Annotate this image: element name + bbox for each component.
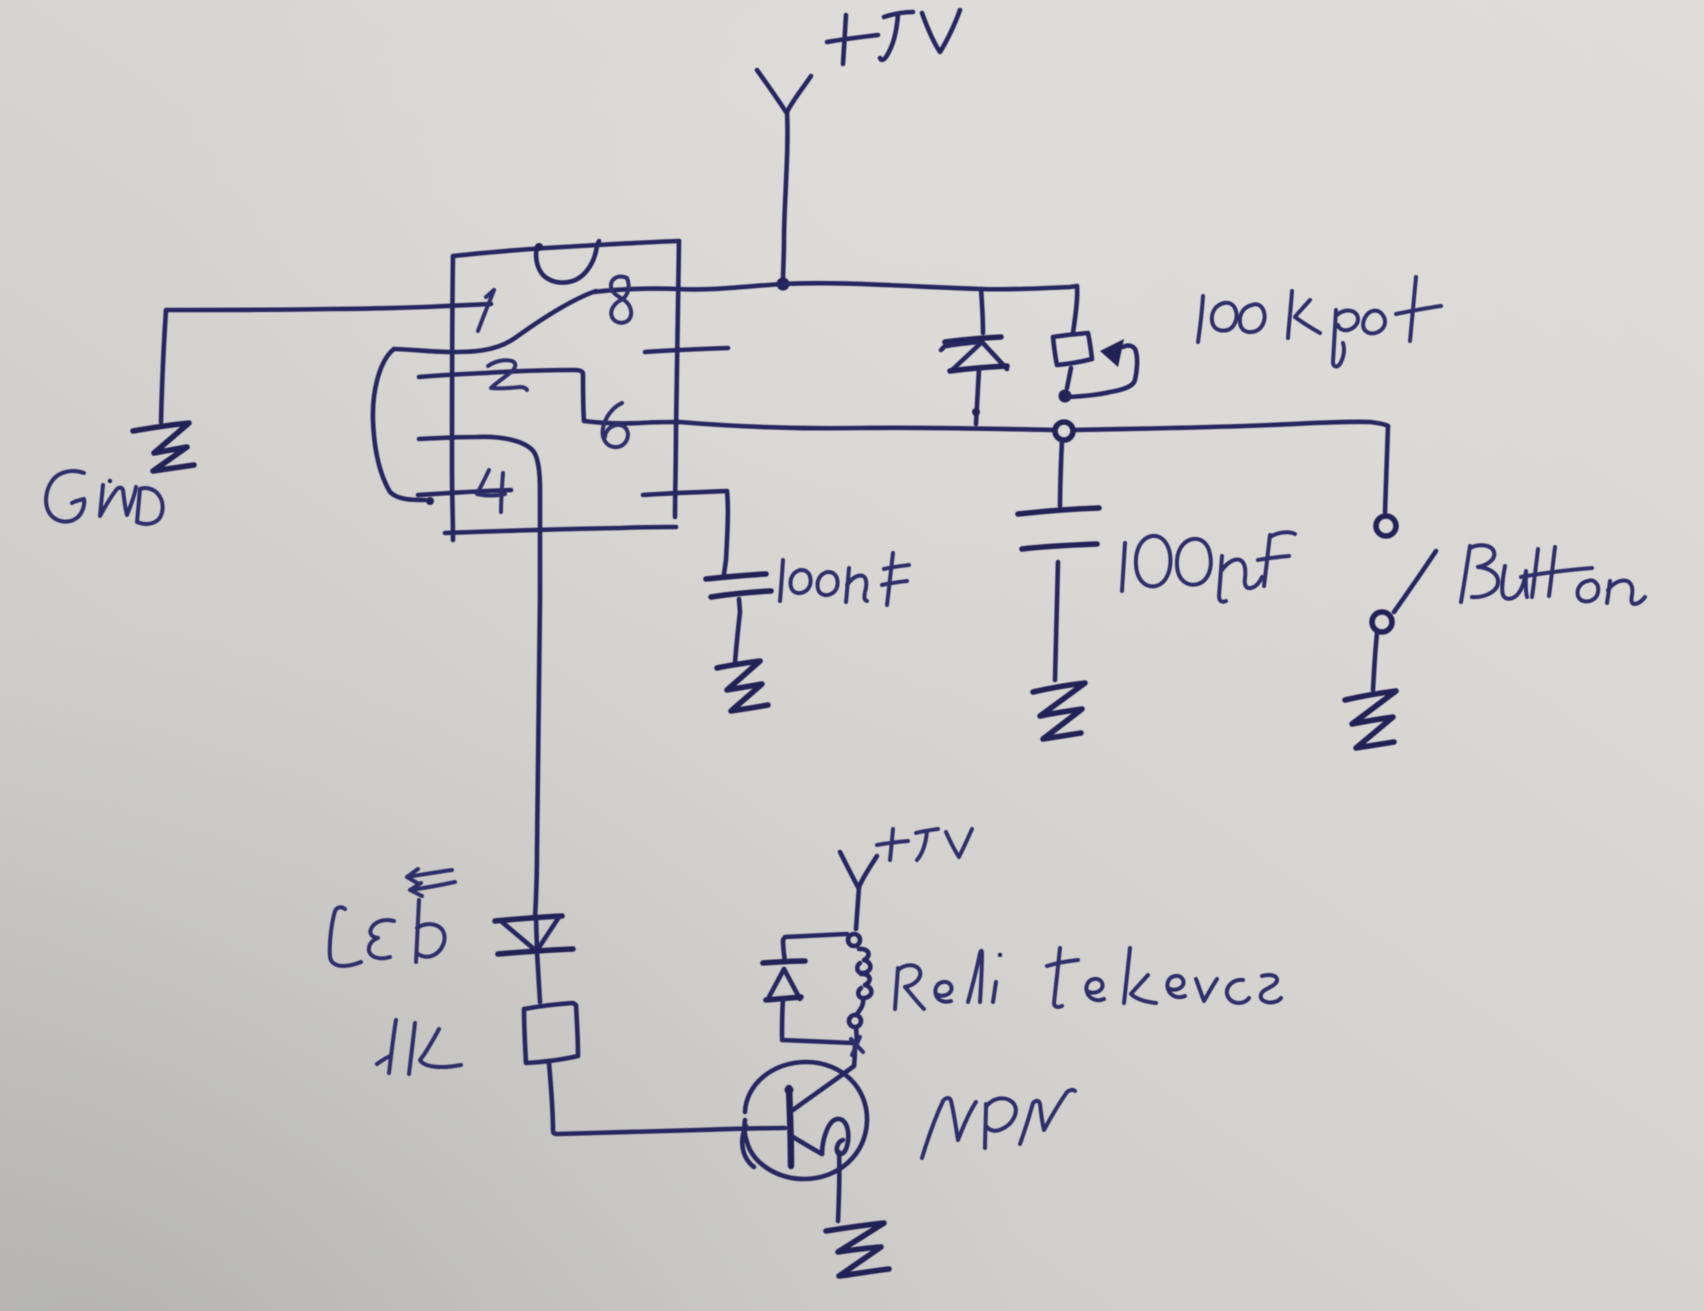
wire bus corner to button	[1385, 426, 1388, 512]
label pin 8	[611, 277, 631, 323]
diode D1 (across pot, cathode up)	[941, 289, 1007, 424]
transistor Q1 NPN	[742, 1062, 867, 1179]
junction circle bus/cap/pot	[1055, 422, 1073, 440]
wire pin 8/reset diagonal to left edge	[394, 291, 596, 352]
wire pin 8 to +5V rail to pot	[594, 283, 1077, 292]
label 1K	[377, 1020, 461, 1074]
label pin 2	[488, 360, 527, 390]
node +5V label (relay)	[877, 829, 972, 860]
button switch arm	[1394, 551, 1436, 612]
relay coil squiggle	[857, 949, 871, 1014]
ground symbol button	[1345, 691, 1396, 748]
power symbol Y (antenna)	[757, 70, 811, 281]
label Reli tekercs	[895, 948, 1281, 1009]
label LED	[330, 900, 445, 966]
ground symbol C1	[717, 661, 768, 711]
button bottom contact	[1372, 612, 1392, 632]
IC notch (orientation mark)	[536, 241, 599, 283]
capacitor C2 100uF	[1018, 440, 1099, 680]
IC U1 555 timer box	[445, 241, 679, 540]
ground symbol GND	[133, 423, 194, 471]
label 100uF	[1122, 532, 1295, 601]
wire pin 3 to LED (long drop)	[419, 437, 540, 918]
wire emitter down	[838, 1152, 839, 1221]
label NPN	[922, 1090, 1075, 1158]
label pin 1	[478, 290, 494, 331]
button SW1 top contact	[1376, 516, 1396, 536]
wire pin 2 Z-link to pin 6	[419, 370, 584, 421]
label pin 4	[477, 470, 505, 512]
wire R1 to base	[549, 1063, 785, 1134]
wire collector to relay	[854, 1042, 855, 1066]
label 100nF	[780, 553, 909, 605]
ground symbol C2	[1033, 683, 1085, 739]
wire reset bracket curve to pin 4	[373, 349, 434, 505]
pot wiper wire hook	[1070, 339, 1137, 397]
LED light arrows	[407, 869, 455, 896]
bus wire threshold/trigger to right	[679, 422, 1388, 430]
label 100k pot	[1198, 277, 1441, 366]
LED D2	[495, 916, 573, 1002]
potentiometer 100k body	[1053, 333, 1092, 388]
wire pin 6 to bus	[584, 421, 679, 423]
flyback diode D3	[763, 961, 805, 1037]
relay coil bottom contact	[849, 1015, 861, 1027]
junction node +5V to rail	[777, 278, 790, 291]
label GND	[46, 471, 163, 524]
label Button	[1461, 545, 1645, 604]
pin 7 stub	[645, 348, 728, 352]
relay frame bottom wire	[782, 1027, 863, 1055]
label pin 6	[603, 403, 628, 447]
capacitor C1 100nF	[706, 574, 771, 663]
relay coil K1 top contact	[848, 934, 860, 946]
relay frame top wire	[783, 934, 847, 962]
pin 4 stub	[418, 490, 511, 495]
ground symbol emitter	[826, 1223, 889, 1276]
wire pin 1 to GND	[161, 304, 491, 422]
pot wiper junction dot	[1059, 390, 1072, 403]
power Y (relay)	[840, 852, 877, 929]
resistor R1 1K box	[524, 1003, 578, 1063]
wire pin 5 to 100nF cap	[643, 491, 728, 574]
node +5V label (top)	[827, 10, 960, 64]
wire button to ground	[1373, 633, 1377, 690]
wire rail corner down to pot	[1073, 286, 1077, 333]
